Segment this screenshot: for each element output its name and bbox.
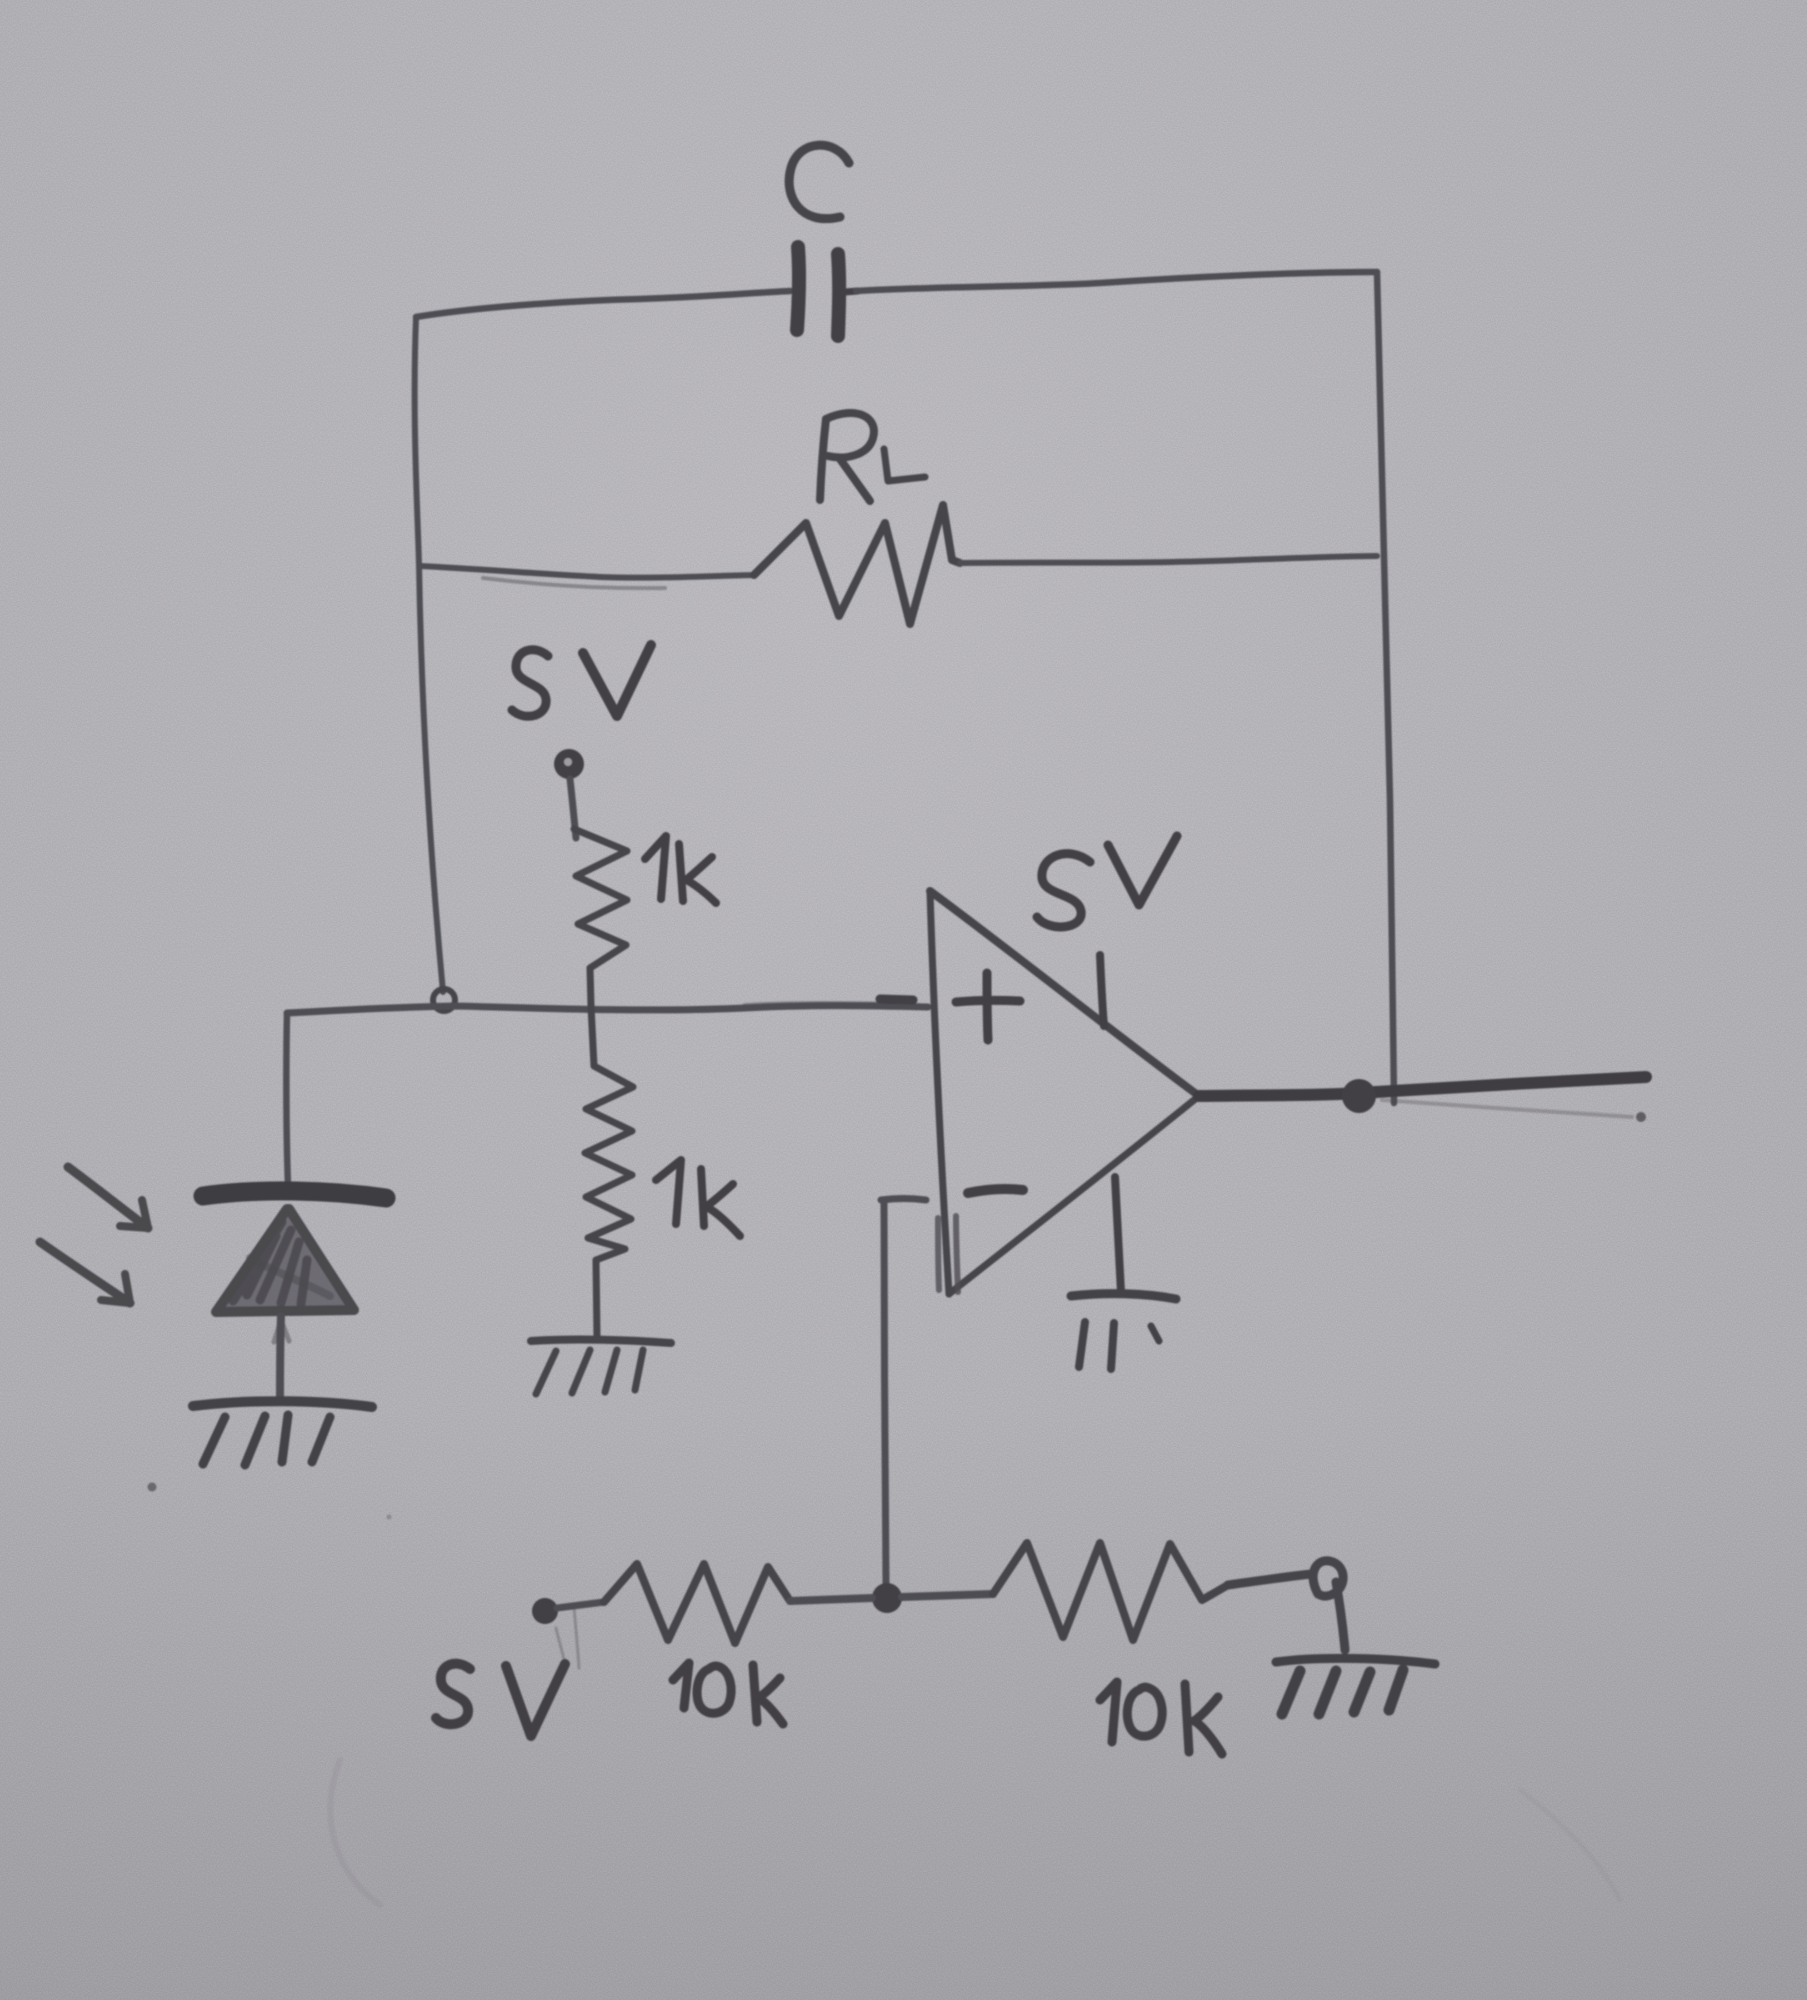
node A (open circle junction) bbox=[433, 989, 455, 1011]
label SV (op-amp supply) bbox=[1037, 836, 1177, 927]
label RL bbox=[820, 413, 925, 501]
wire top horizontal to capacitor bbox=[416, 291, 790, 317]
op-amp U1 triangle bbox=[930, 891, 1199, 1294]
wire R3 to node bbox=[790, 1598, 872, 1601]
ground (bottom right) bbox=[1276, 1658, 1435, 1714]
wire overdraw near op-amp bbox=[745, 1004, 912, 1006]
label SV (bottom) bbox=[436, 1664, 565, 1736]
label SV (left supply) bbox=[512, 645, 651, 716]
wire right vertical bbox=[1377, 272, 1394, 1103]
paper speck bbox=[148, 1483, 157, 1492]
resistor R2 1k (lower) bbox=[585, 1006, 633, 1338]
label 10k (left) bbox=[673, 1663, 783, 1724]
wire R4 to ground hook bbox=[1228, 1561, 1345, 1650]
wire 5V dot to R1 bbox=[570, 779, 576, 838]
capacitor C bbox=[797, 247, 858, 336]
wire node to photodiode (down-left) bbox=[286, 1013, 288, 1186]
wire horizontal node row (to op-amp + input) bbox=[287, 1006, 928, 1013]
resistor R3 10k bbox=[604, 1564, 790, 1643]
resistor RL bbox=[754, 505, 960, 624]
ground (op-amp) bbox=[1071, 1294, 1176, 1369]
junction node (output) bbox=[1342, 1079, 1376, 1113]
power 5V terminal (dot) bbox=[554, 749, 584, 779]
op-amp + input wire stub bbox=[880, 999, 913, 1000]
light arrow 1 bbox=[68, 1167, 148, 1228]
wire inverting input stub bbox=[881, 1199, 926, 1201]
wire RL row left segment bbox=[420, 566, 754, 578]
light arrow 2 bbox=[40, 1242, 130, 1303]
paper speck small bbox=[387, 1515, 392, 1520]
ground (under photodiode) bbox=[193, 1401, 372, 1465]
wire node to R4 bbox=[902, 1594, 993, 1597]
output wire from op-amp bbox=[1199, 1077, 1646, 1096]
ground (under R2) bbox=[531, 1340, 671, 1394]
resistor R4 10k bbox=[993, 1543, 1228, 1640]
op-amp ground pin bbox=[1115, 1177, 1121, 1292]
wire RL row right segment bbox=[960, 556, 1377, 563]
op-amp power pin bbox=[1100, 955, 1104, 1026]
op-amp - input symbol bbox=[968, 1189, 1023, 1193]
label 1k (upper) bbox=[645, 836, 716, 903]
output faint lower stroke bbox=[1382, 1100, 1632, 1117]
wire top horizontal right of capacitor bbox=[856, 272, 1377, 291]
resistor R1 1k bbox=[574, 829, 627, 1006]
label 1k (lower) bbox=[656, 1160, 740, 1236]
wire left vertical (top loop left side) bbox=[415, 318, 443, 992]
wire inverting input (down to divider) bbox=[884, 1201, 886, 1583]
photodiode D1 cathode bar bbox=[203, 1191, 386, 1198]
op-amp + input symbol bbox=[956, 973, 1020, 1040]
wire RL row faint overdraw bbox=[483, 578, 665, 588]
photodiode D1 triangle bbox=[216, 1209, 354, 1312]
power 5V terminal (bottom, dot) bbox=[532, 1598, 558, 1624]
faint smudge arc 2 bbox=[1520, 1790, 1620, 1900]
photodiode lead down bbox=[280, 1316, 281, 1402]
label C bbox=[789, 145, 849, 218]
wire 5V dot to R3 bbox=[557, 1602, 604, 1608]
label 10k (right) bbox=[1100, 1682, 1222, 1754]
node (divider midpoint, filled dot) bbox=[872, 1583, 902, 1613]
faint smudge arc bbox=[330, 1760, 380, 1905]
op-amp minus-side overdraw strokes bbox=[938, 1218, 939, 1290]
